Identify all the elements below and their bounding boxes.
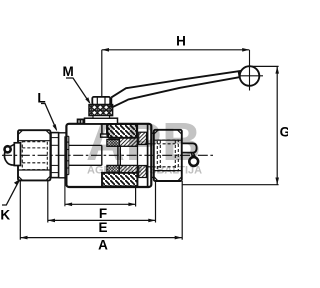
lower body hatch block bbox=[102, 173, 137, 187]
svg-text:A: A bbox=[98, 237, 108, 252]
watermark APB bbox=[86, 112, 202, 177]
lower seal X-hatch bbox=[107, 165, 120, 172]
hidden plug threads in right nut bbox=[148, 140, 179, 171]
lower step hatch bbox=[119, 165, 137, 172]
left port tube bbox=[59, 133, 67, 178]
svg-text:F: F bbox=[99, 206, 107, 221]
svg-text:APB: APB bbox=[86, 112, 202, 172]
right nut bbox=[154, 130, 182, 181]
dimension F bbox=[65, 187, 136, 207]
packing gland (knurled) bbox=[89, 105, 113, 116]
handle knob ball bbox=[238, 50, 263, 91]
dimension G bbox=[182, 66, 279, 184]
right tube stub bbox=[151, 133, 154, 177]
valve body bbox=[66, 124, 151, 187]
left adapter collar bbox=[51, 133, 59, 178]
handle lever bbox=[111, 71, 241, 108]
left port bore lines bbox=[69, 145, 102, 165]
svg-text:L: L bbox=[37, 90, 45, 105]
svg-text:M: M bbox=[63, 64, 74, 79]
svg-text:K: K bbox=[0, 207, 10, 222]
dimension A bbox=[20, 180, 182, 240]
right plug with pull ring bbox=[182, 143, 198, 166]
svg-text:G: G bbox=[280, 125, 288, 140]
bonnet plate bbox=[85, 118, 118, 124]
upper step hatch bbox=[119, 138, 137, 147]
stem bbox=[101, 124, 109, 137]
svg-text:E: E bbox=[98, 220, 107, 235]
stop tab on body top bbox=[78, 119, 84, 123]
left port counterbore bbox=[65, 136, 69, 206]
hidden threads in left nut bbox=[22, 142, 47, 170]
svg-text:AGROPARTSBALTIJA: AGROPARTSBALTIJA bbox=[87, 165, 202, 177]
svg-text:H: H bbox=[176, 33, 186, 48]
label M leader bbox=[66, 78, 91, 104]
label L leader bbox=[41, 104, 57, 132]
centerline axis bbox=[2, 154, 215, 156]
right wall upper thread patch bbox=[139, 132, 147, 144]
dimension E bbox=[48, 181, 156, 223]
ball bore edges bbox=[102, 145, 121, 165]
plug K with pull ring bbox=[4, 143, 20, 166]
upper seal X-hatch bbox=[107, 139, 120, 146]
stem hex nut M bbox=[92, 97, 110, 105]
right wall lines bbox=[138, 124, 148, 187]
label K leader bbox=[2, 179, 20, 205]
dimension H bbox=[102, 48, 250, 97]
left swivel nut L bbox=[18, 130, 50, 180]
upper seat hatch block bbox=[107, 124, 137, 138]
right wall lower thread patch bbox=[139, 166, 147, 178]
